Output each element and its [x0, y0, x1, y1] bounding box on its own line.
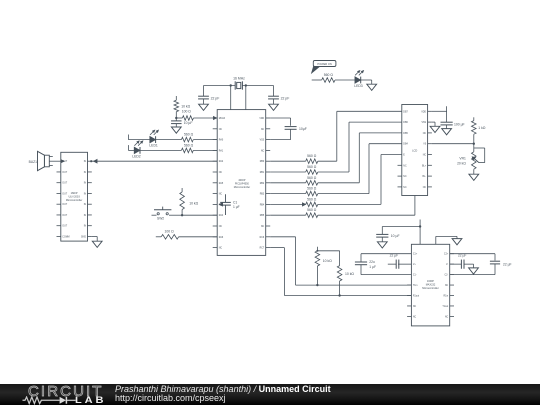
svg-text:C1-: C1- [413, 275, 417, 277]
svg-text:NC: NC [423, 133, 427, 135]
svg-text:IN: IN [84, 215, 87, 217]
svg-text:Microcontroller: Microcontroller [66, 199, 83, 202]
svg-text:1 µF: 1 µF [233, 205, 240, 209]
svg-text:100 Ω: 100 Ω [182, 109, 192, 113]
svg-text:560 Ω: 560 Ω [307, 154, 317, 158]
svg-text:NC: NC [261, 129, 265, 131]
svg-text:T1out: T1out [442, 305, 448, 308]
svg-text:560 Ω: 560 Ω [307, 165, 317, 169]
svg-text:10 µF: 10 µF [391, 234, 400, 238]
svg-text:22 µF: 22 µF [390, 253, 399, 257]
svg-text:COMM: COMM [62, 236, 69, 238]
svg-text:SW2: SW2 [157, 216, 164, 220]
svg-text:10 kΩ: 10 kΩ [189, 202, 198, 206]
svg-text:IN: IN [84, 172, 87, 174]
svg-text:560 Ω: 560 Ω [307, 208, 317, 212]
svg-text:V0: V0 [423, 144, 427, 146]
svg-text:RA6: RA6 [219, 236, 224, 239]
svg-text:RB5: RB5 [260, 215, 265, 217]
svg-text:RA2: RA2 [219, 160, 224, 163]
svg-text:V-: V- [446, 264, 448, 266]
svg-text:LED2: LED2 [132, 154, 141, 158]
svg-text:10 kΩ: 10 kΩ [181, 104, 190, 108]
svg-text:DB4: DB4 [403, 144, 408, 146]
svg-text:LCD: LCD [412, 149, 417, 153]
svg-text:RB3: RB3 [260, 194, 265, 196]
svg-text:10 kΩ: 10 kΩ [323, 259, 332, 263]
svg-text:NC: NC [403, 187, 407, 189]
svg-text:IN: IN [84, 193, 87, 195]
svg-text:OUT: OUT [62, 161, 67, 163]
svg-text:NC: NC [261, 226, 265, 228]
svg-text:NC: NC [423, 155, 427, 157]
svg-text:IN: IN [84, 183, 87, 185]
svg-text:NC: NC [423, 187, 427, 189]
svg-text:VDD: VDD [421, 111, 426, 113]
svg-text:BL+: BL+ [422, 165, 427, 167]
svg-text:OUT: OUT [62, 204, 67, 206]
svg-text:NC: NC [219, 248, 223, 250]
svg-text:NC: NC [403, 176, 407, 178]
svg-text:OUT: OUT [62, 193, 67, 195]
svg-text:OUT: OUT [62, 215, 67, 217]
svg-text:1 µF: 1 µF [369, 265, 376, 269]
svg-text:16 MHz: 16 MHz [233, 76, 245, 80]
svg-text:NC: NC [413, 316, 417, 318]
svg-text:560 Ω: 560 Ω [307, 176, 317, 180]
svg-text:VR1: VR1 [459, 157, 466, 161]
svg-text:22 µF: 22 µF [458, 253, 467, 257]
svg-text:RA1: RA1 [219, 149, 224, 152]
svg-text:VDD: VDD [259, 118, 264, 120]
svg-text:RB4: RB4 [260, 204, 265, 206]
svg-text:POWER ON: POWER ON [317, 62, 332, 66]
svg-text:IN: IN [84, 204, 87, 206]
svg-text:560 Ω: 560 Ω [307, 197, 317, 201]
svg-text:RA5: RA5 [219, 182, 224, 185]
svg-text:IN: IN [84, 161, 87, 163]
svg-text:22 pF: 22 pF [211, 96, 220, 100]
svg-text:RB1: RB1 [260, 172, 265, 174]
svg-text:100 Ω: 100 Ω [165, 230, 175, 234]
svg-text:LED3: LED3 [354, 84, 363, 88]
svg-text:DB5: DB5 [403, 133, 408, 135]
svg-text:NC: NC [219, 194, 223, 196]
svg-text:MCLR: MCLR [219, 118, 226, 120]
svg-text:C1+: C1+ [413, 254, 418, 256]
svg-text:LED1: LED1 [149, 143, 158, 147]
svg-text:10µF: 10µF [299, 127, 307, 131]
svg-text:OUT: OUT [62, 172, 67, 174]
svg-text:10 kΩ: 10 kΩ [345, 272, 354, 276]
svg-text:560 Ω: 560 Ω [184, 133, 194, 137]
svg-text:22 µF: 22 µF [503, 263, 512, 267]
svg-text:R1out: R1out [413, 295, 419, 298]
svg-text:560 Ω: 560 Ω [184, 143, 194, 147]
svg-text:22u: 22u [369, 260, 375, 264]
svg-text:IN: IN [84, 226, 87, 228]
svg-text:RC6: RC6 [260, 237, 265, 239]
svg-text:22 pF: 22 pF [281, 96, 290, 100]
svg-text:C2+: C2+ [444, 254, 449, 256]
svg-text:GND: GND [81, 236, 86, 238]
svg-text:560 Ω: 560 Ω [307, 187, 317, 191]
svg-text:10 µF: 10 µF [184, 121, 193, 125]
svg-text:NC: NC [219, 172, 223, 174]
svg-text:DB7: DB7 [403, 111, 408, 113]
svg-text:NC: NC [403, 165, 407, 167]
svg-text:560 Ω: 560 Ω [324, 73, 334, 77]
svg-text:T1in: T1in [413, 285, 418, 287]
svg-text:NC: NC [445, 285, 449, 287]
svg-text:Microcontroller: Microcontroller [422, 287, 439, 290]
svg-text:V+: V+ [413, 264, 417, 266]
svg-text:RA4: RA4 [219, 214, 224, 217]
svg-text:1 kΩ: 1 kΩ [478, 126, 486, 130]
svg-text:VSS: VSS [260, 140, 265, 142]
svg-text:NC: NC [445, 316, 449, 318]
svg-text:Microcontroller: Microcontroller [234, 186, 251, 189]
svg-text:NC: NC [413, 306, 417, 308]
svg-text:OUT: OUT [62, 226, 67, 228]
svg-text:BL-: BL- [423, 176, 427, 178]
svg-text:RA0: RA0 [219, 139, 224, 142]
svg-text:C2-: C2- [444, 275, 448, 277]
svg-text:DB6: DB6 [403, 122, 408, 124]
svg-text:RC7: RC7 [260, 248, 265, 250]
svg-text:NC: NC [219, 226, 223, 228]
svg-text:100 µF: 100 µF [454, 122, 465, 126]
svg-text:NC: NC [219, 129, 223, 131]
svg-text:RB0: RB0 [260, 161, 265, 163]
svg-text:C1: C1 [233, 200, 237, 204]
svg-text:RB2: RB2 [260, 183, 265, 185]
svg-text:20 kΩ: 20 kΩ [457, 162, 466, 166]
svg-text:OUT: OUT [62, 183, 67, 185]
svg-text:BUZ1: BUZ1 [29, 160, 38, 164]
svg-text:R1in: R1in [443, 296, 448, 298]
svg-text:NC: NC [261, 150, 265, 152]
svg-text:E: E [403, 155, 405, 157]
svg-text:VSS: VSS [421, 122, 426, 124]
